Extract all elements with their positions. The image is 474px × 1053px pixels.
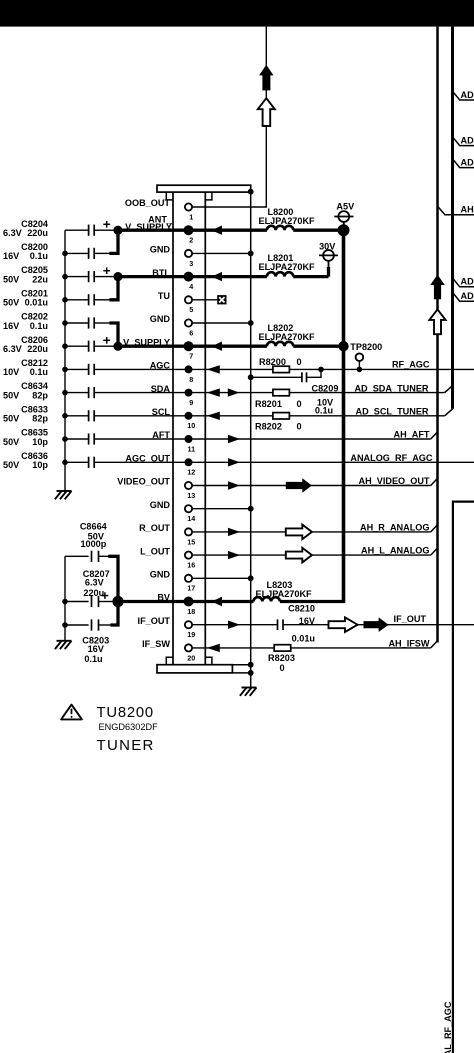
signal-direction arrow solid up (OOB_OUT): [259, 65, 273, 91]
pin 20 IF_SW: [142, 639, 195, 662]
svg-text:220u: 220u: [27, 344, 48, 354]
svg-text:RF_AGC: RF_AGC: [392, 360, 430, 370]
svg-text:50V: 50V: [3, 437, 20, 447]
inductor L8201 ELJPA270KF: [267, 272, 293, 276]
connector bottom notches: [166, 657, 212, 664]
svg-text:13: 13: [187, 491, 195, 500]
resistor R8203 0: [274, 645, 291, 651]
svg-text:IF_OUT: IF_OUT: [138, 616, 171, 626]
svg-text:ENGD6302DF: ENGD6302DF: [99, 722, 159, 732]
junction ground rail y=578.3: [248, 575, 254, 581]
pin 2 ANT__V_SUPPLY: [125, 215, 193, 245]
svg-text:50V: 50V: [3, 298, 20, 308]
ground BV group: [55, 641, 72, 649]
capacitor C8633 50V 82p: [3, 404, 94, 423]
connector body side walls: [172, 192, 174, 665]
signal arrow right pin15: [228, 528, 240, 536]
signal arrow right pin12: [228, 458, 240, 466]
signal arrow right pin9 (bidir): [228, 388, 240, 396]
wire SCL row (pin10): [94, 415, 445, 417]
pin 13 VIDEO_OUT: [117, 477, 195, 500]
wire AGC_OUT row (pin12) to ANALOG_RF_AGC: [94, 461, 474, 463]
svg-text:50V: 50V: [3, 460, 20, 470]
IC block outline (right): [453, 502, 474, 1053]
wire GND pin17: [192, 577, 251, 579]
svg-text:220u: 220u: [27, 228, 48, 238]
junction ground rail y=377.3: [248, 374, 254, 380]
signal arrow left pin20: [207, 644, 220, 652]
junction A5V / ANT_V_SUPPLY: [338, 224, 350, 236]
svg-text:IF_OUT: IF_OUT: [394, 614, 427, 624]
wire GND pin14: [192, 508, 251, 510]
svg-text:AHI: AHI: [461, 204, 474, 214]
pin 12 AGC_OUT: [125, 454, 195, 477]
svg-text:16V: 16V: [3, 251, 20, 261]
svg-text:TP8200: TP8200: [350, 342, 382, 352]
svg-text:C8210: C8210: [288, 603, 315, 613]
svg-text:AD_SDA_TUNER: AD_SDA_TUNER: [354, 383, 428, 393]
svg-text:C8209: C8209: [312, 384, 339, 394]
svg-text:GND: GND: [150, 500, 171, 510]
pin 8 AGC: [150, 361, 194, 384]
svg-text:5: 5: [189, 305, 193, 314]
svg-text:11: 11: [187, 444, 195, 453]
junction flange/ground: [248, 189, 254, 195]
wire left ground bus (vertical): [64, 230, 66, 491]
capacitor C8664 50V 1000p: [80, 522, 118, 602]
pin 14 GND: [150, 500, 196, 523]
wire bus AD (vertical, far right): [451, 27, 454, 409]
svg-text:10V: 10V: [3, 367, 20, 377]
svg-text:12: 12: [187, 468, 195, 477]
signal arrow right pin19: [228, 621, 240, 629]
capacitor C8212 10V 0.1u: [3, 358, 94, 377]
wire flange to ground line: [232, 664, 250, 666]
wire IF_OUT row (pin19): [192, 624, 474, 626]
svg-text:VIDEO_OUT: VIDEO_OUT: [117, 477, 170, 487]
inductor L8202 ELJPA270KF: [267, 342, 293, 346]
svg-text:TU8200: TU8200: [97, 705, 154, 721]
signal arrow right pin16: [228, 551, 240, 559]
wire A5V supply rail (vertical): [342, 230, 346, 601]
svg-text:IF_SW: IF_SW: [142, 639, 170, 649]
svg-text:R8200: R8200: [259, 357, 286, 367]
svg-text:0.1u: 0.1u: [30, 251, 48, 261]
wire ANT_V_SUPPLY row (pin2): [118, 229, 344, 232]
svg-text:7: 7: [189, 352, 193, 361]
net label ADC (right edge): [453, 159, 474, 168]
capacitor C8203 16V 0.1u: [62, 602, 118, 665]
no-connect symbol pin5: [217, 295, 226, 304]
capacitor C8636 50V 10p: [3, 451, 94, 470]
svg-text:R8203: R8203: [268, 653, 295, 663]
capacitor C8634 50V 82p: [3, 381, 94, 400]
warning triangle: [61, 705, 82, 720]
wire R_OUT row (pin15): [192, 531, 431, 533]
ground connector shield: [240, 688, 257, 696]
pin 3 GND: [150, 245, 194, 268]
net label ADC (right edge): [453, 137, 474, 146]
svg-text:16V: 16V: [3, 321, 20, 331]
inductor L8200 ELJPA270KF: [267, 226, 293, 230]
wire BV row (pin18): [118, 600, 345, 603]
svg-text:22u: 22u: [32, 274, 48, 284]
resistor R8202 0: [273, 413, 290, 419]
signal arrow left pin4: [212, 272, 223, 281]
svg-text:ADC: ADC: [461, 157, 474, 167]
border frame top title band: [0, 0, 474, 27]
svg-text:16V: 16V: [88, 644, 105, 654]
signal arrow left pin7: [212, 342, 223, 351]
net label ADC (right edge): [453, 278, 474, 287]
capacitor C8206 6.3V 220u: [3, 335, 123, 354]
svg-text:C8664: C8664: [80, 522, 108, 532]
inductor L8203 ELJPA270KF: [254, 597, 280, 601]
svg-text:ELJPA270KF: ELJPA270KF: [256, 589, 313, 599]
signal arrow right pin11: [228, 435, 240, 443]
wire SDA row (pin9): [94, 392, 445, 394]
svg-text:R8201: R8201: [255, 399, 282, 409]
ground left bus: [55, 491, 72, 499]
svg-text:20: 20: [187, 653, 195, 662]
svg-text:82p: 82p: [32, 414, 48, 424]
pin 18 BV: [157, 593, 195, 616]
signal-direction arrow solid up (AH bus): [430, 275, 445, 300]
bus arrow hollow right (pin16): [286, 548, 312, 563]
svg-text:8: 8: [189, 375, 193, 384]
pin 6 GND: [150, 314, 194, 337]
svg-text:ADC: ADC: [461, 291, 474, 301]
resistor R8200 0: [273, 366, 290, 372]
svg-text:AH_AFT: AH_AFT: [394, 430, 430, 440]
wire TU pin5: [192, 299, 217, 301]
connector top notches: [166, 192, 212, 200]
wire AGC row (pin8) to RF_AGC: [94, 368, 474, 370]
svg-text:AH_R_ANALOG: AH_R_ANALOG: [360, 523, 429, 533]
wire V_SUPPLY row (pin7): [118, 345, 344, 348]
wire to ground (BV group): [64, 625, 66, 641]
capacitor C8200 16V 0.1u: [3, 230, 118, 261]
svg-text:ANALOG_RF_AGC: ANALOG_RF_AGC: [350, 453, 433, 463]
svg-text:0.01u: 0.01u: [292, 634, 315, 644]
pin 15 R_OUT: [139, 523, 195, 546]
connector TU8200 top flange: [157, 185, 251, 192]
svg-text:0: 0: [297, 422, 302, 432]
svg-text:ADC: ADC: [461, 90, 474, 100]
wire VIDEO_OUT row (pin13): [192, 485, 431, 487]
wire IF_SW row (pin20): [192, 647, 431, 649]
svg-text:ELJPA270KF: ELJPA270KF: [259, 262, 316, 272]
svg-text:0.1u: 0.1u: [84, 654, 102, 664]
svg-text:L_OUT: L_OUT: [140, 546, 170, 556]
junction BV row: [112, 596, 123, 607]
signal-direction arrow hollow up (AH bus): [429, 309, 445, 334]
svg-text:10p: 10p: [32, 437, 48, 447]
svg-text:ELJPA270KF: ELJPA270KF: [259, 216, 316, 226]
svg-text:4: 4: [189, 282, 193, 291]
junction ground rail y=323.0: [248, 320, 254, 326]
svg-text:GND: GND: [150, 570, 171, 580]
svg-text:AH_IFSW: AH_IFSW: [388, 638, 429, 648]
bus arrow hollow right (IF_OUT): [329, 617, 358, 632]
power symbol 30V: [319, 241, 338, 276]
junction supply rail / L8202: [338, 341, 348, 351]
capacitor C8210 16V 0.01u: [277, 619, 279, 630]
wire GND pin6: [192, 322, 251, 324]
pin 10 SCL: [152, 407, 196, 430]
svg-text:GND: GND: [150, 245, 171, 255]
capacitor C8204 6.3V 220u: [3, 219, 123, 238]
signal-direction arrow hollow up (OOB_OUT): [258, 98, 275, 126]
bus arrow solid right (VIDEO_OUT): [286, 478, 312, 493]
svg-text:A5V: A5V: [336, 202, 355, 212]
junction ground rail y=508.7: [248, 506, 254, 512]
pin 1 OOB_OUT: [125, 198, 193, 221]
svg-text:6.3V: 6.3V: [3, 228, 23, 238]
svg-text:ELJPA270KF: ELJPA270KF: [259, 332, 316, 342]
svg-text:0.01u: 0.01u: [25, 298, 48, 308]
signal arrow right pin13: [228, 481, 240, 489]
svg-text:6.3V: 6.3V: [3, 344, 23, 354]
svg-text:17: 17: [187, 584, 195, 593]
svg-text:1000p: 1000p: [80, 539, 106, 549]
svg-text:OOB_OUT: OOB_OUT: [125, 198, 171, 208]
resistor R8201 0: [273, 389, 290, 395]
wire ground rail (vertical): [250, 192, 252, 688]
svg-text:50V: 50V: [3, 414, 20, 424]
svg-text:3: 3: [189, 259, 193, 268]
svg-text:AL_RF_AGC: AL_RF_AGC: [443, 1001, 453, 1053]
capacitor C8205 50V 22u: [3, 265, 123, 284]
capacitor C8201 50V 0.01u: [3, 277, 118, 308]
svg-text:0.1u: 0.1u: [30, 367, 48, 377]
svg-text:6: 6: [189, 328, 193, 337]
svg-text:6.3V: 6.3V: [85, 578, 105, 588]
wire L_OUT row (pin16): [192, 554, 431, 556]
svg-text:TU: TU: [158, 291, 171, 301]
test point TP8200: [350, 342, 382, 372]
pin 16 L_OUT: [140, 546, 195, 569]
pin 7 V_SUPPLY: [123, 337, 193, 360]
svg-text:AD_SCL_TUNER: AD_SCL_TUNER: [355, 407, 428, 417]
svg-text:ADC: ADC: [461, 135, 474, 145]
pin 19 IF_OUT: [138, 616, 196, 639]
svg-text:2: 2: [189, 236, 193, 245]
svg-text:AH_L_ANALOG: AH_L_ANALOG: [361, 546, 429, 556]
pin 5 TU: [158, 291, 193, 314]
bus arrow hollow right (pin15): [286, 525, 312, 540]
pin 9 SDA: [151, 384, 194, 407]
net label ADC (right edge): [453, 292, 474, 301]
svg-text:50V: 50V: [3, 390, 20, 400]
svg-text:0: 0: [279, 663, 284, 673]
svg-text:10: 10: [187, 421, 195, 430]
bus arrow solid right (IF_OUT): [364, 617, 389, 632]
net label ADC (right edge): [453, 91, 474, 100]
svg-text:AH_VIDEO_OUT: AH_VIDEO_OUT: [359, 476, 430, 486]
svg-text:82p: 82p: [32, 390, 48, 400]
svg-text:50V: 50V: [3, 274, 20, 284]
pin 17 GND: [150, 570, 196, 593]
signal arrow left pin2: [212, 226, 223, 235]
svg-text:220u: 220u: [83, 588, 104, 598]
pin 11 AFT: [152, 430, 195, 453]
capacitor C8202 16V 0.1u: [3, 312, 118, 347]
capacitor C8207 6.3V 220u: [62, 569, 114, 607]
connector bottom flange: [157, 665, 232, 673]
net label AH... (right edge): [438, 206, 474, 214]
svg-text:R8202: R8202: [255, 422, 282, 432]
wire OOB_OUT to top: [192, 27, 266, 207]
signal arrow left pin8: [207, 365, 220, 373]
pin 4 BTL: [152, 268, 193, 291]
signal arrow left pin10: [207, 412, 220, 420]
svg-text:9: 9: [189, 398, 193, 407]
wire BTL row (pin4): [118, 275, 329, 278]
power symbol A5V: [334, 202, 355, 231]
svg-text:ADC: ADC: [461, 277, 474, 287]
wire AFT row (pin11): [94, 438, 431, 440]
signal arrow left pin9: [207, 388, 220, 396]
svg-text:GND: GND: [150, 314, 171, 324]
svg-text:18: 18: [187, 607, 195, 616]
wire bus AH (vertical, right): [436, 27, 439, 643]
svg-text:16V: 16V: [299, 616, 316, 626]
capacitor C8635 50V 10p: [3, 428, 94, 447]
svg-text:TUNER: TUNER: [97, 737, 155, 754]
svg-text:16: 16: [187, 561, 195, 570]
svg-text:0: 0: [297, 357, 302, 367]
svg-text:0.1u: 0.1u: [30, 321, 48, 331]
wire BV filter left leg: [65, 556, 89, 625]
svg-text:0.1u: 0.1u: [315, 406, 333, 416]
svg-text:0: 0: [297, 399, 302, 409]
junction ground rail y=253.4: [248, 251, 254, 257]
signal arrow left pin18: [212, 597, 223, 606]
svg-text:14: 14: [187, 514, 195, 523]
svg-text:1: 1: [189, 212, 193, 221]
svg-text:10p: 10p: [32, 460, 48, 470]
svg-text:15: 15: [187, 537, 195, 546]
capacitor C8209 10V 0.1u: [251, 369, 321, 377]
svg-text:R_OUT: R_OUT: [139, 523, 170, 533]
wire GND pin3: [192, 252, 251, 254]
svg-text:19: 19: [187, 630, 195, 639]
